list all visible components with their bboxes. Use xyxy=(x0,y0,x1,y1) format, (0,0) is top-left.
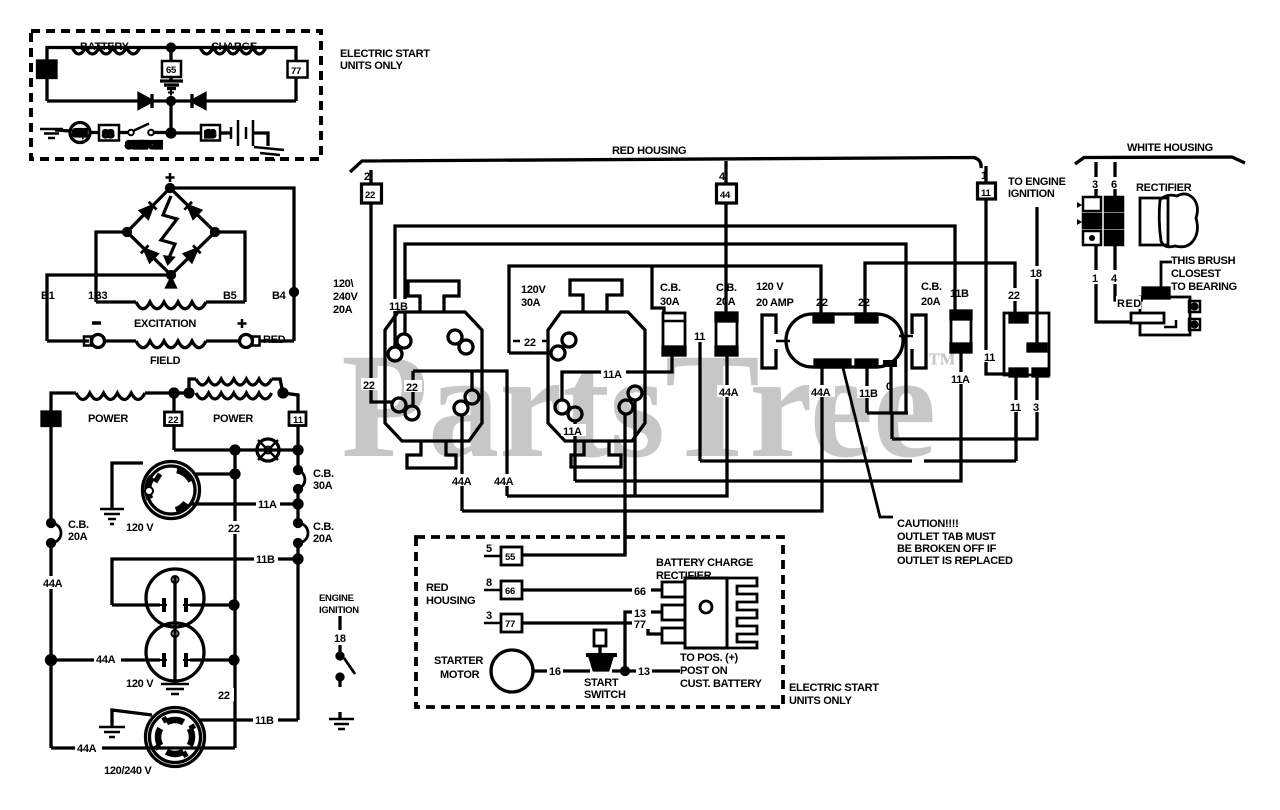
svg-text:B5: B5 xyxy=(223,290,237,302)
terminal box 77 xyxy=(288,61,308,78)
svg-text:22: 22 xyxy=(228,523,240,535)
wire xyxy=(154,131,167,134)
wire H3 44A line xyxy=(462,367,822,511)
svg-text:1: 1 xyxy=(981,170,987,182)
svg-text:22: 22 xyxy=(524,337,536,349)
label 4 wire xyxy=(1110,270,1120,284)
C.B. 30A breaker right xyxy=(295,467,302,474)
ground duplex xyxy=(161,684,189,694)
wire right node to B5 drop xyxy=(215,232,245,302)
svg-text:22: 22 xyxy=(363,380,375,392)
svg-text:44A: 44A xyxy=(96,654,116,666)
selector switch block xyxy=(1004,313,1049,375)
svg-text:C.B.: C.B. xyxy=(313,468,334,480)
battery charge rectifier xyxy=(662,582,685,597)
svg-text:11: 11 xyxy=(293,415,304,426)
wire 13 line xyxy=(625,612,662,671)
wire xyxy=(338,645,341,653)
svg-text:BATTERY: BATTERY xyxy=(80,41,130,53)
svg-text:55: 55 xyxy=(505,552,516,563)
svg-text:5: 5 xyxy=(486,543,492,555)
wire 11A down from C4' xyxy=(573,421,576,481)
wire into duplex lower xyxy=(51,658,160,661)
svg-text:1B3: 1B3 xyxy=(88,290,107,302)
dashed enclosure (electric start units) xyxy=(31,31,321,159)
wire 3 xyxy=(1094,162,1097,197)
node bottom xyxy=(168,272,175,279)
svg-text:77: 77 xyxy=(634,619,646,631)
brush holder assembly xyxy=(1140,297,1190,335)
wire 11 drop to selector switch xyxy=(986,199,1010,374)
ground left in box xyxy=(40,129,63,138)
plus terminal xyxy=(240,335,253,348)
svg-text:CLOSEST: CLOSEST xyxy=(1171,268,1221,280)
svg-text:44: 44 xyxy=(41,65,51,75)
selector tab 22 top xyxy=(1010,315,1027,322)
label 11B lower xyxy=(253,713,278,725)
svg-text:1: 1 xyxy=(1092,273,1098,285)
dashed enclosure (electric start bottom) xyxy=(416,537,783,707)
duplex body capsule xyxy=(786,314,903,367)
C.B. 20A breaker (right) xyxy=(951,311,971,352)
svg-text:18: 18 xyxy=(334,633,346,645)
svg-text:C.B.: C.B. xyxy=(921,281,942,293)
svg-text:ENGINE: ENGINE xyxy=(319,593,354,604)
terminal box 13 xyxy=(201,125,220,141)
svg-text:RED: RED xyxy=(426,582,449,594)
wire net11 vertical xyxy=(698,330,701,461)
node 11A xyxy=(294,500,302,508)
svg-text:11A: 11A xyxy=(563,426,582,438)
duplex bottom tab 11B xyxy=(856,360,877,367)
svg-text:22: 22 xyxy=(218,690,230,702)
jog bar 11B xyxy=(867,411,908,414)
svg-text:C.B.: C.B. xyxy=(716,282,737,294)
bus line 11B upper xyxy=(395,226,955,347)
bus line 22 xyxy=(509,266,821,353)
label 22 arrow at O2 xyxy=(520,335,542,348)
label 44A bottom xyxy=(75,741,102,753)
duplex lower slots xyxy=(164,653,186,667)
label 3 wire xyxy=(1091,177,1101,189)
O1 bottom mounting tab xyxy=(407,441,456,468)
diode D1 xyxy=(139,94,152,108)
svg-text:HOUSING: HOUSING xyxy=(426,595,475,607)
svg-text:11: 11 xyxy=(981,188,991,199)
wire 0 stub xyxy=(889,366,892,413)
duplex outlet 120V lower xyxy=(146,623,204,681)
label 66 wire xyxy=(632,584,651,596)
svg-text:C.B.: C.B. xyxy=(313,521,334,533)
svg-text:13: 13 xyxy=(638,666,650,678)
svg-text:11B: 11B xyxy=(256,554,275,566)
wire xyxy=(296,543,299,720)
terminal box 66 xyxy=(501,581,522,599)
wire left drop xyxy=(45,78,48,102)
wire 11A line xyxy=(190,502,298,505)
wire to node xyxy=(145,391,174,394)
wire jog down xyxy=(890,413,893,439)
label 22 selector xyxy=(1006,288,1024,301)
svg-text:44A: 44A xyxy=(43,578,63,590)
svg-text:11B: 11B xyxy=(950,288,969,300)
red housing bracket xyxy=(350,158,981,173)
label 11B xyxy=(254,552,278,564)
ignition switch xyxy=(337,653,343,659)
svg-text:PartsTree: PartsTree xyxy=(341,323,936,489)
svg-text:RECTIFIER: RECTIFIER xyxy=(656,570,712,582)
svg-text:77: 77 xyxy=(291,66,301,77)
wire 11B tab down xyxy=(865,367,868,413)
svg-text:THIS BRUSH: THIS BRUSH xyxy=(1171,255,1236,267)
duplex top tab 22 right xyxy=(856,314,877,322)
label 11 mid xyxy=(692,329,709,342)
svg-text:120 V: 120 V xyxy=(126,678,154,690)
svg-text:65: 65 xyxy=(166,65,177,76)
wire bottom node to B1 xyxy=(47,275,171,341)
wire xyxy=(296,489,299,523)
wire xyxy=(220,131,231,134)
svg-text:13: 13 xyxy=(205,129,215,140)
svg-text:11B: 11B xyxy=(255,715,274,727)
node top xyxy=(167,185,174,192)
node right winding start xyxy=(185,389,193,397)
svg-text:66: 66 xyxy=(505,586,515,597)
wire outlet left to ground xyxy=(112,463,143,508)
terminal box (black) left xyxy=(38,61,57,78)
label 22 mid xyxy=(226,521,243,534)
svg-text:22: 22 xyxy=(365,190,375,201)
wire 11B to 120/240 outlet xyxy=(190,718,298,721)
svg-text:120/240 V: 120/240 V xyxy=(104,765,152,777)
label 22 lower xyxy=(216,688,234,701)
120/240V twistlock outlet xyxy=(146,708,205,767)
wire center drop xyxy=(169,101,172,133)
svg-text:IGNITION: IGNITION xyxy=(1008,188,1055,200)
battery B1 plates xyxy=(231,120,253,146)
diode top-left xyxy=(140,202,156,218)
C.B. 20A breaker (mid) xyxy=(716,313,737,355)
svg-text:20A: 20A xyxy=(921,296,941,308)
wire xyxy=(119,131,128,134)
wire to box 11 xyxy=(283,393,298,412)
selector tab 18 mid xyxy=(1028,344,1046,351)
wire 44A from C8 down xyxy=(460,415,463,511)
svg-text:CAUTION!!!!: CAUTION!!!! xyxy=(897,518,958,530)
svg-text:TO BEARING: TO BEARING xyxy=(1171,281,1237,293)
svg-text:2: 2 xyxy=(364,171,370,183)
terminal box 77 xyxy=(501,614,522,632)
svg-text:RED HOUSING: RED HOUSING xyxy=(612,145,686,157)
svg-text:3: 3 xyxy=(486,610,492,622)
wire 16 xyxy=(533,669,590,672)
terminal box 11 (panel) xyxy=(984,166,987,183)
field bottom wire left xyxy=(47,339,89,342)
svg-text:B1: B1 xyxy=(41,290,55,302)
svg-text:RED: RED xyxy=(1117,298,1142,310)
SM starter motor circle xyxy=(70,123,90,143)
ground 120/240 xyxy=(99,727,125,737)
svg-text:CUST. BATTERY: CUST. BATTERY xyxy=(680,678,763,690)
duplex outlet 120V upper xyxy=(146,569,204,627)
svg-text:C.B.: C.B. xyxy=(660,282,681,294)
svg-text:ELECTRIC START: ELECTRIC START xyxy=(340,48,430,60)
wire xyxy=(90,131,99,134)
wire H2 11A line xyxy=(575,352,961,481)
label 16 xyxy=(547,664,563,676)
diode D2 xyxy=(192,94,205,108)
rectifier blob xyxy=(1140,198,1168,245)
wire 55 entry xyxy=(522,511,625,555)
svg-text:66: 66 xyxy=(634,586,646,598)
wire xyxy=(206,339,239,342)
ground engine ignition xyxy=(338,712,341,718)
O2 bottom mounting tab xyxy=(571,441,621,467)
node 44A duplex xyxy=(47,656,56,665)
receptacle O2 body xyxy=(548,312,645,441)
svg-text:POST ON: POST ON xyxy=(680,665,728,677)
svg-text:C.B.: C.B. xyxy=(68,519,89,531)
node lamp right xyxy=(294,446,302,454)
wire switch-11 drop xyxy=(1014,410,1017,439)
pilot lamp xyxy=(257,439,279,461)
wire lamp bus xyxy=(174,448,298,451)
svg-text:OUTLET IS REPLACED: OUTLET IS REPLACED xyxy=(897,555,1013,567)
svg-text:POWER: POWER xyxy=(213,413,253,425)
wire bottom bus xyxy=(47,99,296,102)
bridge diamond xyxy=(127,188,215,275)
bus line 11B lower xyxy=(405,244,906,413)
wire 6 xyxy=(1113,162,1116,197)
terminal box 22 (panel) xyxy=(369,170,372,184)
wire 44A from breaker down xyxy=(725,355,728,481)
O2 terminal circles top-left xyxy=(562,333,576,347)
terminal box 44 (panel) xyxy=(724,161,727,184)
svg-text:20 AMP: 20 AMP xyxy=(756,297,794,309)
svg-text:88: 88 xyxy=(103,129,113,140)
svg-text:ELECTRIC START: ELECTRIC START xyxy=(789,682,879,694)
label 11A inside O2 xyxy=(601,367,626,379)
label 44A left xyxy=(41,576,67,589)
C.B. 30A breaker (mid) xyxy=(652,266,664,313)
svg-text:11A: 11A xyxy=(951,374,970,386)
wire 18 stub xyxy=(338,616,341,630)
this brush leader xyxy=(1161,262,1172,288)
label 11 under breaker xyxy=(949,372,975,384)
wire ground stub 120/240 xyxy=(112,710,152,726)
svg-text:TO POS. (+): TO POS. (+) xyxy=(680,652,739,664)
svg-text:30A: 30A xyxy=(521,297,541,309)
power winding left xyxy=(76,393,145,400)
svg-text:11: 11 xyxy=(1010,402,1021,414)
svg-text:TO ENGINE: TO ENGINE xyxy=(1008,176,1066,188)
svg-text:IGNITION: IGNITION xyxy=(319,605,359,616)
wire node to 22 box xyxy=(172,393,175,412)
C.B. 20A breaker right xyxy=(295,520,302,527)
node lower xyxy=(167,129,175,137)
svg-text:44A: 44A xyxy=(719,387,739,399)
terminal box 44 (black) xyxy=(42,412,60,426)
svg-text:MOTOR: MOTOR xyxy=(440,669,480,681)
charge winding L2 xyxy=(200,48,266,55)
diode top-right xyxy=(184,202,200,218)
terminal box 55 xyxy=(501,547,522,565)
node 11B xyxy=(294,555,302,563)
duplex left ear xyxy=(762,315,776,368)
label RED (white housing) xyxy=(1116,296,1141,309)
node center tap xyxy=(168,44,175,51)
wire y439 net3 xyxy=(892,410,1037,439)
svg-text:20A: 20A xyxy=(716,296,736,308)
svg-text:3: 3 xyxy=(1033,402,1039,414)
minus terminal xyxy=(84,337,91,346)
wire selector-3 stub xyxy=(1035,376,1038,410)
svg-text:20A: 20A xyxy=(68,531,88,543)
bus line duplex22-switch22 xyxy=(865,263,1015,316)
svg-text:START: START xyxy=(584,677,619,689)
label 11A under O2 xyxy=(561,424,586,436)
node 22 tap xyxy=(170,389,178,397)
svg-text:11A: 11A xyxy=(603,369,622,381)
wire 13 to battery xyxy=(612,669,680,672)
label 1 wire xyxy=(1091,270,1101,284)
svg-text:POWER: POWER xyxy=(88,413,128,425)
node left xyxy=(124,229,131,236)
wire 22 into O2 xyxy=(509,351,551,354)
120V twistlock outlet xyxy=(143,462,200,519)
label 11A xyxy=(256,497,280,509)
label 11B duplex xyxy=(857,386,882,398)
svg-text:44: 44 xyxy=(45,415,55,425)
O1 terminal circles top-left xyxy=(397,334,411,348)
label 6 wire xyxy=(1110,177,1120,189)
surge arrester zigzag xyxy=(161,196,177,260)
label 44A second xyxy=(492,474,518,486)
svg-text:CHARGE: CHARGE xyxy=(211,41,257,53)
label 13 xyxy=(636,664,652,676)
svg-text:11A: 11A xyxy=(258,499,277,511)
svg-text:16: 16 xyxy=(549,666,561,678)
ground right in box xyxy=(254,147,284,160)
connector block xyxy=(1077,197,1123,245)
node at 22 drop xyxy=(231,446,239,454)
O2 top mounting tab xyxy=(570,280,622,312)
svg-text:3: 3 xyxy=(1092,179,1098,191)
svg-text:BATTERY CHARGE: BATTERY CHARGE xyxy=(656,557,753,569)
O1 terminal circles center (unused) xyxy=(448,330,462,344)
svg-text:FIELD: FIELD xyxy=(150,355,181,367)
O2 terminal circles bottom-right xyxy=(628,386,642,400)
svg-text:OUTLET TAB MUST: OUTLET TAB MUST xyxy=(897,531,996,543)
wire xyxy=(174,391,189,394)
wire power left lead xyxy=(51,393,76,412)
switch SW1 xyxy=(128,130,134,136)
svg-text:11: 11 xyxy=(984,352,995,364)
svg-text:120V: 120V xyxy=(521,284,546,296)
diode bottom-left xyxy=(141,245,157,261)
wire 11A from C.B.30A xyxy=(645,355,672,372)
duplex upper slots xyxy=(164,598,186,612)
wire battery to ground xyxy=(253,133,268,146)
receptacle O1 body xyxy=(385,312,482,441)
wire stub C7 up xyxy=(470,371,473,390)
wire stub 22 to C6 xyxy=(411,371,414,406)
wire right drop xyxy=(294,78,297,102)
wire 44A left vertical xyxy=(49,543,52,748)
wire 77 line xyxy=(522,623,662,634)
white housing bracket xyxy=(1075,157,1245,164)
label 22 left of O1 xyxy=(361,378,380,390)
svg-text:11: 11 xyxy=(694,331,705,343)
capacitor/ground under 65 xyxy=(169,77,172,80)
svg-text:30A: 30A xyxy=(313,480,333,492)
svg-text:44A: 44A xyxy=(452,476,472,488)
ground 120V outlet xyxy=(100,509,124,524)
wire 4 xyxy=(1115,245,1143,300)
terminal box 65 xyxy=(162,61,181,77)
terminal box 22 xyxy=(165,412,183,426)
caution leader xyxy=(843,368,893,517)
wire 66 line xyxy=(522,588,662,591)
wire selector-11 stub xyxy=(1014,376,1017,410)
svg-text:44A: 44A xyxy=(77,743,97,755)
duplex top tab 22 left xyxy=(814,314,833,322)
O2 terminal circles bottom-left xyxy=(555,400,569,414)
label 44A mid xyxy=(717,385,743,397)
wire 11A inside O2 xyxy=(562,372,645,400)
label 11B at O1 xyxy=(388,299,413,311)
wire 44 drop to C.B.20A xyxy=(724,203,727,313)
svg-text:WHITE HOUSING: WHITE HOUSING xyxy=(1127,142,1213,154)
wire 44A bottom xyxy=(51,746,235,749)
svg-text:RECTIFIER: RECTIFIER xyxy=(1136,182,1192,194)
terminal box 88 xyxy=(99,125,119,141)
field winding xyxy=(136,341,206,348)
node right winding end xyxy=(279,389,287,397)
svg-text:SWITCH: SWITCH xyxy=(126,140,162,151)
wire top node to B4 drop xyxy=(170,188,294,341)
label 11 selector xyxy=(1008,400,1025,412)
duplex bottom tab 44A xyxy=(815,360,831,367)
svg-text:0: 0 xyxy=(886,381,892,393)
svg-text:22: 22 xyxy=(168,415,179,426)
svg-text:120\: 120\ xyxy=(333,278,353,290)
wire 22 vertical xyxy=(233,450,236,748)
wire ground to SM xyxy=(55,130,70,131)
ear links xyxy=(776,336,913,341)
svg-text:22: 22 xyxy=(858,297,870,309)
selector tab 3 bottom xyxy=(1033,369,1048,376)
svg-text:30A: 30A xyxy=(660,296,680,308)
wire red to B4 drop xyxy=(260,339,295,342)
svg-text:UNITS ONLY: UNITS ONLY xyxy=(340,60,404,72)
label 44A under O1 xyxy=(450,474,476,486)
duplex right ear xyxy=(912,315,926,368)
wire H1 net11 xyxy=(700,459,912,462)
C.B. 20A breaker left xyxy=(49,426,52,524)
O1 top mounting tab xyxy=(408,281,459,312)
wire node to 13 xyxy=(175,131,201,134)
svg-text:120 V: 120 V xyxy=(126,522,154,534)
label 22 inner O1 xyxy=(404,380,422,392)
wire 11 box down xyxy=(296,426,299,470)
wire 22 box down to lamp bus xyxy=(172,426,175,451)
wire H2b xyxy=(507,481,727,496)
wire TO ENGINE IGNITION drop xyxy=(1035,207,1038,345)
svg-text:SM: SM xyxy=(73,128,87,139)
svg-text:22: 22 xyxy=(1008,290,1020,302)
svg-text:77: 77 xyxy=(505,619,515,630)
